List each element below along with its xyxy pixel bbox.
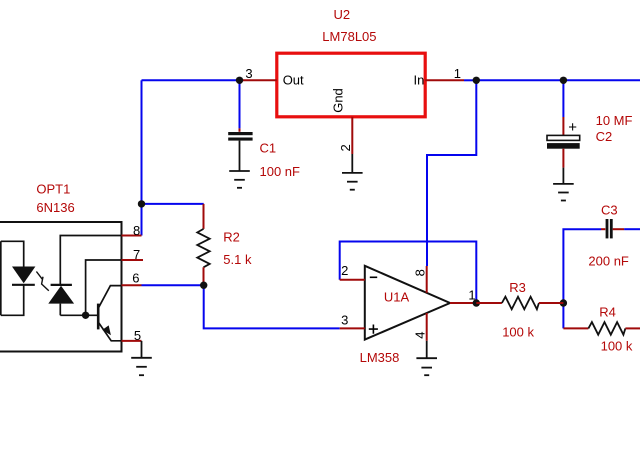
svg-text:Gnd: Gnd bbox=[331, 88, 346, 113]
wire junction to R2 top bbox=[142, 203, 204, 205]
optocoupler OPT1 box bbox=[0, 222, 122, 352]
op-amp pin 1 stub bbox=[450, 302, 476, 304]
ground for OPT1 pin 5 bbox=[131, 341, 152, 375]
junction dot R2 bottom node bbox=[200, 282, 207, 289]
op-amp pin 8 stub bbox=[426, 266, 428, 293]
OPT1 pin 8 stub bbox=[122, 235, 142, 237]
svg-text:6N136: 6N136 bbox=[36, 200, 74, 215]
svg-text:3: 3 bbox=[245, 66, 252, 81]
svg-text:+: + bbox=[568, 119, 577, 136]
svg-text:1: 1 bbox=[454, 66, 461, 81]
op-amp plus sign bbox=[369, 325, 378, 334]
wire C3 right to edge bbox=[624, 228, 640, 230]
op-amp pin 4 stub bbox=[426, 313, 428, 341]
resistor R2 bbox=[197, 204, 209, 285]
ground for op-amp pin 4 bbox=[416, 341, 437, 375]
OPT1 base node wire bbox=[60, 314, 97, 316]
svg-text:100 nF: 100 nF bbox=[260, 164, 301, 179]
phototransistor of OPT1 bbox=[98, 286, 121, 341]
svg-text:5.1 k: 5.1 k bbox=[223, 252, 252, 267]
wire OPT1 pin 6 to R2 bottom bbox=[142, 284, 204, 286]
svg-text:LM78L05: LM78L05 bbox=[322, 29, 376, 44]
ground for C2 bbox=[553, 184, 574, 201]
svg-text:3: 3 bbox=[341, 313, 348, 328]
svg-text:10 MF: 10 MF bbox=[596, 113, 633, 128]
U2 pin 2 Gnd stub bbox=[351, 117, 353, 154]
capacitor C1 bbox=[228, 128, 252, 171]
light arrow bbox=[36, 272, 48, 291]
OPT1 pin 8 internal wire bbox=[60, 236, 121, 285]
svg-text:8: 8 bbox=[133, 223, 140, 238]
junction dot R3 output node bbox=[560, 299, 567, 306]
wire output node down to R4 bbox=[562, 303, 564, 328]
svg-text:5: 5 bbox=[134, 328, 141, 343]
OPT1 pin 6 stub bbox=[122, 284, 142, 286]
wire C1 top bbox=[239, 80, 241, 128]
svg-text:2: 2 bbox=[338, 144, 353, 151]
junction dot U2 out node bbox=[236, 77, 243, 84]
wire output node up to C3 bbox=[563, 229, 601, 303]
wire feedback loop output to pin 2 bbox=[340, 242, 477, 304]
OPT1 pin 7 internal wire bbox=[86, 260, 122, 315]
wire left vertical drop bbox=[141, 80, 143, 204]
svg-text:U1A: U1A bbox=[384, 289, 410, 304]
capacitor C2 electrolytic bbox=[547, 117, 580, 184]
resistor R4 bbox=[563, 322, 640, 335]
svg-text:C1: C1 bbox=[260, 141, 277, 156]
svg-text:R2: R2 bbox=[223, 229, 240, 244]
svg-text:C3: C3 bbox=[601, 202, 618, 217]
wire In node to right edge bbox=[476, 79, 640, 81]
ground for C1 bbox=[229, 171, 250, 188]
svg-text:R3: R3 bbox=[509, 280, 526, 295]
svg-text:R4: R4 bbox=[599, 305, 616, 320]
wire VCC-in top left horizontal bbox=[142, 79, 240, 81]
junction dot left supply node bbox=[138, 200, 145, 207]
svg-text:100 k: 100 k bbox=[502, 324, 534, 339]
svg-text:7: 7 bbox=[133, 247, 140, 262]
wire C2 top bbox=[562, 80, 564, 117]
U2 pin 1 In stub bbox=[425, 79, 464, 81]
svg-text:2: 2 bbox=[341, 263, 348, 278]
junction base node bbox=[82, 312, 89, 319]
wire junction down to OPT1 pin 8 bbox=[141, 204, 143, 236]
photodiode of OPT1 bbox=[48, 285, 74, 315]
svg-text:OPT1: OPT1 bbox=[36, 182, 70, 197]
svg-text:U2: U2 bbox=[334, 7, 351, 22]
svg-text:In: In bbox=[414, 73, 425, 88]
OPT1 pin 7 stub bbox=[122, 259, 144, 261]
svg-text:Out: Out bbox=[283, 73, 304, 88]
voltage regulator U2 box bbox=[277, 53, 425, 117]
svg-text:4: 4 bbox=[413, 331, 428, 338]
junction dot C2 node bbox=[560, 77, 567, 84]
svg-text:C2: C2 bbox=[596, 129, 613, 144]
LED diode of OPT1 bbox=[12, 267, 35, 285]
svg-text:LM358: LM358 bbox=[360, 350, 400, 365]
capacitor C3 bbox=[601, 219, 624, 238]
resistor R3 bbox=[476, 297, 563, 310]
svg-text:100 k: 100 k bbox=[601, 338, 633, 353]
OPT1 internal LED loop wires bbox=[1, 241, 24, 315]
op-amp U1A triangle bbox=[365, 266, 450, 340]
svg-text:6: 6 bbox=[132, 271, 139, 286]
wire In pin to junction bbox=[464, 79, 476, 81]
op-amp pin 2 stub bbox=[340, 279, 365, 281]
op-amp pin 3 stub bbox=[340, 327, 365, 329]
ground for U2 pin 2 bbox=[342, 154, 363, 190]
op-amp minus sign bbox=[370, 276, 377, 278]
OPT1 pin 5 stub bbox=[122, 340, 142, 342]
U2 pin 3 Out stub bbox=[240, 79, 277, 81]
wire R2 bottom down to op-amp pin 3 bbox=[204, 285, 340, 328]
junction dot U2 in node bbox=[473, 77, 480, 84]
wire supply down to op-amp pin 8 bbox=[427, 80, 476, 266]
junction dot op-amp output node bbox=[473, 299, 480, 306]
svg-text:8: 8 bbox=[413, 269, 428, 276]
svg-text:200 nF: 200 nF bbox=[588, 253, 629, 268]
